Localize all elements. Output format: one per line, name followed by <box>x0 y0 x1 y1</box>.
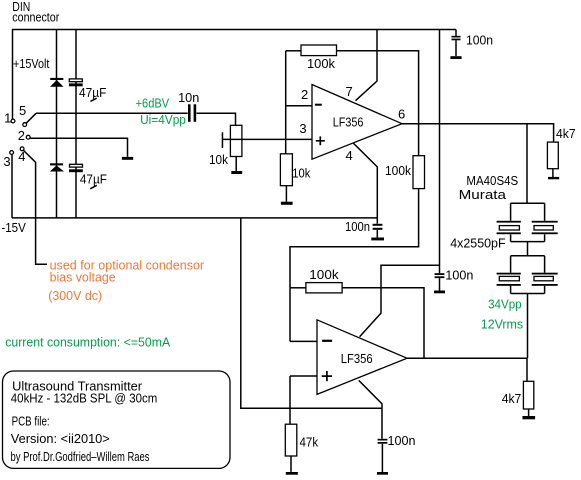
pin2 wire op1 <box>286 105 312 107</box>
svg-text:100n: 100n <box>388 433 416 448</box>
-15V rail <box>12 217 377 219</box>
wire pin5 diagonal <box>26 113 36 123</box>
wire pin2 to ground <box>30 138 127 157</box>
svg-text:10k: 10k <box>292 165 310 180</box>
svg-text:100n: 100n <box>345 219 370 234</box>
svg-text:+15Volt: +15Volt <box>13 56 50 71</box>
svg-text:2: 2 <box>301 87 308 102</box>
op-amp U2 LF356 <box>317 320 407 395</box>
svg-text:connector: connector <box>12 9 60 24</box>
svg-text:3: 3 <box>299 121 306 136</box>
leader line C1 <box>90 98 96 101</box>
svg-text:100n: 100n <box>466 32 493 47</box>
svg-text:4k7: 4k7 <box>556 126 576 141</box>
capacitor 100n (V+ decoupling 2) <box>435 273 445 275</box>
svg-text:47k: 47k <box>300 434 319 449</box>
resistor 10k gain (to ground) <box>285 51 287 154</box>
pin3 wire op2 <box>290 376 317 424</box>
resistor 100k feedback op1 <box>286 50 301 52</box>
capacitor 100n op2 V- <box>378 439 388 441</box>
wire pin4 diagonal to bias note <box>23 150 47 264</box>
svg-text:Ui=4Vpp: Ui=4Vpp <box>140 112 186 127</box>
svg-text:bias voltage: bias voltage <box>50 270 116 285</box>
title box <box>3 371 231 468</box>
svg-text:4: 4 <box>346 148 353 163</box>
resistor 47k <box>285 424 297 456</box>
svg-text:current consumption: <=50mA: current consumption: <=50mA <box>5 335 170 350</box>
resistor 4k7 top right <box>547 142 558 169</box>
svg-text:7: 7 <box>346 84 353 99</box>
svg-text:PCB file:: PCB file: <box>12 414 50 429</box>
ground G2 <box>231 171 242 174</box>
wire diode column <box>56 30 58 218</box>
svg-text:47µF: 47µF <box>79 85 106 100</box>
ground G3 <box>281 202 293 205</box>
transducer stack group 2 <box>497 256 558 358</box>
+15V rail (top) <box>12 29 456 31</box>
ground G1 <box>122 157 133 160</box>
capacitor C1 47uF <box>69 79 83 86</box>
resistor 100k (stage 2 input) <box>413 156 425 189</box>
pin7 wire op2 <box>360 265 440 337</box>
svg-text:-15V: -15V <box>1 220 26 235</box>
pin4 wire op2 <box>359 380 382 438</box>
V+ distribution line <box>439 30 441 274</box>
ground G7 <box>286 472 298 475</box>
wire pin3 vertical <box>11 155 13 218</box>
svg-text:+6dBV: +6dBV <box>136 95 170 110</box>
svg-text:10n: 10n <box>178 90 199 105</box>
svg-text:LF356: LF356 <box>341 351 373 366</box>
svg-text:100k: 100k <box>309 267 339 282</box>
transducer feed wire <box>526 124 528 204</box>
svg-text:100k: 100k <box>385 163 411 178</box>
svg-text:47µF: 47µF <box>80 172 107 187</box>
ground G5 <box>450 56 461 59</box>
ground G10 <box>523 416 536 419</box>
wire pin1 vertical <box>12 30 14 120</box>
svg-text:4x2550pF: 4x2550pF <box>450 235 505 250</box>
svg-text:Version: <ii2010>: Version: <ii2010> <box>11 431 110 446</box>
capacitor 100n (V- decoupling) <box>373 224 383 226</box>
svg-text:40kHz - 132dB SPL @ 30cm: 40kHz - 132dB SPL @ 30cm <box>11 390 158 405</box>
capacitor C2 47uF <box>69 164 83 172</box>
ground G8 <box>377 472 388 475</box>
ground G6 <box>434 291 445 294</box>
svg-text:12Vrms: 12Vrms <box>481 317 524 332</box>
leader line C2 <box>90 185 97 189</box>
svg-text:34Vpp: 34Vpp <box>488 297 521 312</box>
svg-text:2: 2 <box>18 128 25 143</box>
svg-text:100k: 100k <box>307 56 335 71</box>
svg-text:1: 1 <box>4 110 11 125</box>
capacitor 10n <box>188 104 191 122</box>
V- branch wire to op2 <box>241 218 382 408</box>
resistor 4k7 bottom <box>523 381 533 409</box>
svg-text:MA40S4S: MA40S4S <box>466 173 518 188</box>
svg-text:100n: 100n <box>445 268 473 283</box>
capacitor 100n top right (V+ decoupling) <box>455 30 457 57</box>
svg-text:3: 3 <box>3 154 10 169</box>
diode D1 <box>50 78 64 87</box>
diode D2 <box>50 163 64 171</box>
ground G9 <box>548 177 559 179</box>
pin2 wire op2 <box>290 340 317 342</box>
svg-text:5: 5 <box>19 103 26 118</box>
input wire with 10n cap <box>36 112 188 114</box>
potentiometer 10k input <box>230 125 242 156</box>
svg-text:10k: 10k <box>209 152 228 167</box>
ground G4 <box>371 238 384 241</box>
wire cap column <box>75 30 77 218</box>
svg-text:4k7: 4k7 <box>502 391 522 406</box>
svg-text:LF356: LF356 <box>333 115 364 130</box>
svg-text:Murata: Murata <box>459 187 507 202</box>
svg-text:6: 6 <box>398 107 405 122</box>
output wire op2 <box>407 358 527 381</box>
transducer stack group 1 <box>497 203 558 256</box>
svg-text:(300V dc): (300V dc) <box>48 288 102 303</box>
op-amp U1 LF356 <box>312 85 402 160</box>
svg-text:by Prof.Dr.Godfried–Willem Rae: by Prof.Dr.Godfried–Willem Raes <box>11 449 150 464</box>
